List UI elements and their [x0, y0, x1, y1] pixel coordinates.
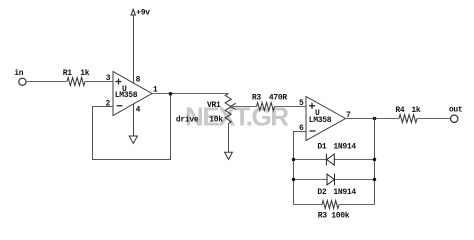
wire feedback right vertical	[374, 119, 376, 205]
svg-text:R1: R1	[63, 69, 73, 78]
svg-text:out: out	[449, 105, 463, 114]
wire R4 to out	[417, 118, 450, 120]
wire VR1 to ground	[228, 124, 230, 153]
junction D1 left	[292, 158, 295, 161]
svg-text:100k: 100k	[331, 212, 350, 221]
svg-text:10k: 10k	[209, 116, 223, 125]
node in (terminal)	[19, 78, 26, 85]
wire pin 4 to ground	[133, 105, 135, 137]
svg-text:+9v: +9v	[136, 8, 150, 17]
svg-text:8: 8	[136, 76, 141, 85]
svg-text:1: 1	[153, 85, 158, 94]
potentiometer VR1 wiper arrow	[230, 103, 236, 109]
wire pin 6 feedback	[294, 132, 307, 205]
svg-text:4: 4	[136, 105, 141, 114]
svg-text:drive: drive	[176, 116, 199, 125]
wire R3 100k branch	[294, 204, 323, 206]
svg-text:R3: R3	[252, 93, 262, 102]
ground under VR1	[225, 152, 233, 159]
svg-text:R3: R3	[318, 212, 328, 221]
wire U1 output	[152, 93, 229, 95]
junction D2 right	[373, 178, 376, 181]
potentiometer VR1	[225, 94, 231, 124]
diode D1 1N914	[326, 154, 334, 166]
wire pin 2 feedback left	[93, 94, 171, 160]
ground under U1	[129, 136, 137, 144]
wire +9v to pin 8	[133, 15, 135, 83]
svg-text:1k: 1k	[411, 106, 421, 115]
svg-text:470R: 470R	[269, 93, 288, 102]
wire D2 branch	[294, 179, 328, 181]
resistor R1	[67, 78, 85, 86]
svg-text:3: 3	[106, 74, 111, 83]
node out (terminal)	[451, 115, 458, 122]
svg-text:1k: 1k	[80, 69, 90, 78]
svg-text:1N914: 1N914	[333, 188, 356, 197]
power +9v arrow	[131, 9, 135, 15]
resistor R3 100k	[322, 201, 339, 209]
junction D1 right	[373, 158, 376, 161]
wire in to R1	[27, 81, 68, 83]
svg-text:LM358: LM358	[309, 116, 332, 125]
resistor R4 1k	[399, 115, 417, 123]
svg-text:D1: D1	[317, 143, 327, 152]
svg-text:5: 5	[299, 99, 304, 108]
svg-text:1N914: 1N914	[333, 143, 356, 152]
op-amp U2 LM358	[306, 97, 346, 141]
wire D1 branch	[294, 159, 327, 161]
junction D2 left	[292, 178, 295, 181]
svg-text:LM358: LM358	[115, 91, 138, 100]
wire R3 to pin 5	[275, 106, 307, 108]
wire wiper to R3	[230, 106, 256, 108]
wire U2 output	[346, 118, 400, 120]
junction feedback/output	[169, 92, 173, 96]
wire R1 to pin 3	[85, 81, 113, 83]
op-amp U1 LM358	[113, 72, 152, 116]
svg-text:VR1: VR1	[207, 101, 221, 110]
diode D2 1N914	[327, 174, 335, 186]
resistor R3 470R	[257, 103, 275, 111]
svg-text:2: 2	[106, 99, 111, 108]
junction output/feedback	[373, 117, 377, 121]
svg-text:R4: R4	[395, 106, 405, 115]
svg-text:in: in	[14, 69, 24, 78]
svg-text:D2: D2	[317, 188, 327, 197]
